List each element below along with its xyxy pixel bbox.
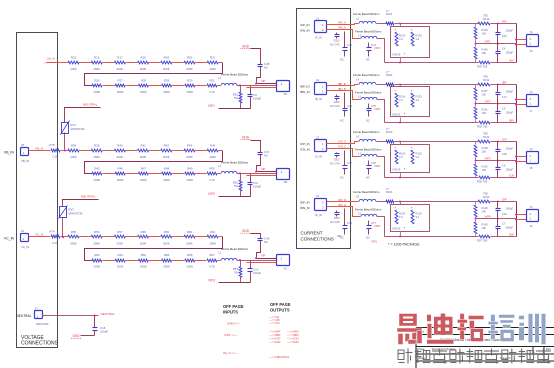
svg-text:R101: R101: [386, 12, 393, 16]
svg-text:100pF: 100pF: [506, 207, 514, 211]
svg-text:NEUTRAL: NEUTRAL: [17, 314, 32, 318]
svg-text:7W: 7W: [234, 271, 239, 275]
svg-text:NC: NC: [340, 58, 344, 62]
svg-text:R40: R40: [117, 143, 123, 147]
svg-text:OFF PAGE: OFF PAGE: [223, 304, 244, 309]
svg-text:R124: R124: [399, 212, 406, 216]
svg-text:R125: R125: [416, 212, 423, 216]
svg-text:75E: 75E: [483, 14, 488, 18]
svg-text:200K: 200K: [117, 264, 124, 268]
svg-text:100pF: 100pF: [506, 29, 514, 33]
svg-text:C72: C72: [347, 161, 352, 165]
svg-text:IBP_IN: IBP_IN: [300, 85, 310, 89]
svg-text:R28: R28: [141, 78, 147, 82]
svg-text:0 R141: 0 R141: [392, 113, 401, 117]
svg-text:R137: R137: [482, 89, 489, 93]
svg-text:200K: 200K: [117, 241, 124, 245]
svg-text:ESD: ESD: [334, 158, 340, 162]
svg-text:200K: 200K: [93, 155, 100, 159]
svg-text:200K: 200K: [117, 90, 124, 94]
svg-text:R46: R46: [118, 166, 124, 170]
svg-text:GND: GND: [72, 334, 80, 338]
svg-text:7A: 7A: [530, 31, 533, 34]
svg-text:0 R143: 0 R143: [392, 227, 401, 231]
svg-text:R59: R59: [164, 230, 170, 234]
svg-text:NC: NC: [366, 236, 370, 240]
svg-text:10K: 10K: [482, 150, 487, 154]
svg-text:J1: J1: [316, 16, 319, 20]
svg-text:R142: R142: [482, 165, 489, 169]
svg-text:3.4: 3.4: [416, 98, 420, 102]
svg-text:3.4: 3.4: [416, 155, 420, 159]
svg-text:Rev: Rev: [546, 347, 552, 351]
svg-text:200K: 200K: [70, 241, 77, 245]
svg-text:NC: NC: [366, 58, 370, 62]
svg-text:R49: R49: [187, 166, 193, 170]
svg-text:10K: 10K: [482, 210, 487, 214]
svg-text:200K: 200K: [140, 241, 147, 245]
svg-text:L1: L1: [218, 164, 222, 168]
svg-text:VB_IN: VB_IN: [4, 151, 14, 155]
svg-text:100K: 100K: [186, 264, 193, 268]
svg-text:ICN_IN: ICN_IN: [300, 148, 310, 152]
svg-text:3.4: 3.4: [399, 37, 403, 41]
svg-text:C71: C71: [347, 104, 352, 108]
svg-text:R143: R143: [482, 223, 489, 227]
svg-text:3.4: 3.4: [399, 215, 403, 219]
svg-text:7A: 7A: [530, 206, 533, 209]
svg-text:C16: C16: [502, 34, 507, 38]
svg-text:IAN: IAN: [509, 59, 514, 63]
svg-text:2.2K: 2.2K: [52, 155, 58, 159]
svg-text:R124: R124: [399, 152, 406, 156]
svg-text:Ferrite Bead 600ohm: Ferrite Bead 600ohm: [355, 30, 382, 34]
svg-text:R130: R130: [483, 17, 490, 21]
svg-text:C7: C7: [502, 222, 506, 226]
svg-text:INPUTS: INPUTS: [223, 310, 238, 315]
svg-text:VIP2: VIP2: [208, 192, 215, 196]
svg-text:VB_IN: VB_IN: [21, 159, 29, 163]
svg-text:200K: 200K: [163, 178, 170, 182]
svg-text:L4: L4: [356, 78, 359, 82]
svg-text:VIP2: VIP2: [485, 100, 492, 104]
svg-text:Ferrite Bead 600ohm: Ferrite Bead 600ohm: [221, 73, 249, 77]
svg-text:100pF: 100pF: [506, 51, 514, 55]
svg-text:200K: 200K: [70, 67, 77, 71]
svg-text:J9: J9: [530, 224, 533, 228]
svg-text:R55: R55: [71, 230, 77, 234]
svg-text:NEUTRAL: NEUTRAL: [36, 322, 49, 326]
svg-text:L6: L6: [356, 135, 359, 139]
svg-text:75E: 75E: [483, 75, 488, 79]
svg-text:VIP1: VIP1: [374, 46, 381, 50]
svg-text:10K: 10K: [482, 32, 487, 36]
svg-text:IDP_IN: IDP_IN: [300, 201, 310, 205]
svg-text:200K: 200K: [163, 67, 170, 71]
svg-text:Ferrite Bead 600ohm: Ferrite Bead 600ohm: [353, 12, 380, 16]
svg-text:R41: R41: [140, 143, 146, 147]
svg-text:R18: R18: [140, 55, 146, 59]
svg-text:ESD: ESD: [334, 39, 340, 43]
svg-text:NEUTRAL: NEUTRAL: [101, 312, 116, 316]
svg-text:2.2K: 2.2K: [52, 241, 58, 245]
svg-text:J6: J6: [530, 49, 533, 53]
svg-text:R66: R66: [187, 253, 193, 257]
svg-text:200K: 200K: [94, 178, 101, 182]
svg-text:R132: R132: [483, 135, 490, 139]
svg-text:GND: GND: [242, 45, 250, 49]
svg-text:100pF: 100pF: [100, 330, 108, 334]
svg-text:J8: J8: [530, 166, 533, 170]
svg-text:200K: 200K: [140, 90, 147, 94]
svg-text:200K: 200K: [140, 67, 147, 71]
svg-text:NC: NC: [366, 176, 370, 180]
svg-text:IAP: IAP: [502, 20, 507, 24]
svg-text:IDN_IN: IDN_IN: [300, 206, 310, 210]
svg-text:R124: R124: [399, 34, 406, 38]
svg-text:3.4: 3.4: [416, 215, 420, 219]
svg-text:100pF: 100pF: [253, 185, 261, 189]
svg-text:VIP2: VIP2: [374, 107, 381, 111]
svg-text:L2: L2: [356, 17, 359, 21]
svg-text:R104: R104: [386, 190, 393, 194]
svg-text:R60: R60: [187, 230, 193, 234]
svg-text:VARISTOR: VARISTOR: [69, 211, 83, 215]
svg-text:IB_IN: IB_IN: [315, 97, 322, 101]
svg-text:R39: R39: [94, 143, 100, 147]
svg-text:—>>VC: —>>VC: [269, 321, 281, 325]
svg-text:R75: R75: [49, 143, 55, 147]
svg-text:C19: C19: [502, 212, 507, 216]
svg-text:R140: R140: [482, 48, 489, 52]
svg-text:* = 1206 PACKAGE: * = 1206 PACKAGE: [388, 243, 420, 247]
svg-text:R19: R19: [164, 55, 170, 59]
svg-text:NC: NC: [340, 236, 344, 240]
svg-text:R56 75E: R56 75E: [477, 180, 488, 184]
svg-text:C4: C4: [502, 47, 506, 51]
svg-text:100K: 100K: [186, 178, 193, 182]
svg-text:10K: 10K: [482, 51, 487, 55]
svg-text:NC C43: NC C43: [330, 104, 340, 108]
svg-text:—>>IDP: —>>IDP: [269, 340, 281, 344]
svg-text:R131: R131: [483, 78, 490, 82]
svg-text:200K: 200K: [209, 155, 216, 159]
svg-text:VIP3: VIP3: [485, 157, 492, 161]
svg-text:R57: R57: [117, 230, 123, 234]
svg-text:CONNECTIONS: CONNECTIONS: [21, 341, 59, 347]
svg-text:200K: 200K: [163, 90, 170, 94]
svg-text:GND: GND: [242, 229, 250, 233]
svg-text:NC: NC: [340, 176, 344, 180]
svg-text:200K: 200K: [117, 67, 124, 71]
svg-text:IA_IN: IA_IN: [315, 36, 322, 40]
svg-text:100pF: 100pF: [253, 97, 261, 101]
svg-text:NC C45: NC C45: [330, 220, 340, 224]
svg-text:NEUTRAL: NEUTRAL: [81, 195, 96, 199]
svg-text:VB: VB: [284, 180, 288, 184]
svg-text:C6: C6: [502, 164, 506, 168]
svg-text:75E: 75E: [483, 192, 488, 196]
svg-text:R141: R141: [482, 108, 489, 112]
svg-text:IDN: IDN: [509, 233, 514, 237]
svg-text:NC C42: NC C42: [330, 43, 340, 47]
svg-text:J7: J7: [530, 109, 533, 113]
svg-text:R138: R138: [482, 146, 489, 150]
svg-text:R139: R139: [482, 206, 489, 210]
svg-text:200K: 200K: [93, 67, 100, 71]
svg-text:ID_IN: ID_IN: [315, 213, 322, 217]
svg-text:R136: R136: [482, 28, 489, 32]
svg-text:7W: 7W: [234, 96, 239, 100]
svg-text:IDP: IDP: [502, 198, 507, 202]
svg-text:R21: R21: [210, 55, 216, 59]
svg-text:NC: NC: [264, 240, 268, 244]
svg-text:R43: R43: [187, 143, 193, 147]
svg-text:VIP3: VIP3: [374, 164, 381, 168]
svg-text:—>>IDN: —>>IDN: [287, 340, 299, 344]
svg-text:R20: R20: [187, 55, 193, 59]
svg-text:10K: 10K: [482, 168, 487, 172]
svg-text:VC_IN: VC_IN: [21, 245, 29, 249]
svg-text:VARISTOR: VARISTOR: [71, 127, 85, 131]
svg-text:R31: R31: [209, 78, 215, 82]
svg-text:R47: R47: [141, 166, 147, 170]
svg-text:200K: 200K: [163, 264, 170, 268]
svg-text:Ferrite Bead 600ohm: Ferrite Bead 600ohm: [353, 73, 380, 77]
svg-text:R62: R62: [94, 253, 100, 257]
svg-text:4.7K: 4.7K: [209, 264, 215, 268]
svg-text:VIP1: VIP1: [371, 240, 378, 244]
svg-text:R65: R65: [164, 253, 170, 257]
svg-text:ICP_C: ICP_C: [338, 140, 346, 144]
svg-text:200K: 200K: [140, 178, 147, 182]
svg-text:R44: R44: [210, 143, 216, 147]
svg-text:IC_IN: IC_IN: [315, 155, 322, 159]
svg-text:VB_N: VB_N: [35, 147, 43, 151]
svg-text:GND: GND: [242, 136, 250, 140]
svg-text:200K: 200K: [163, 241, 170, 245]
svg-text:10K: 10K: [482, 226, 487, 230]
svg-text:75E: 75E: [483, 132, 488, 136]
svg-text:OFF PAGE: OFF PAGE: [270, 302, 291, 307]
svg-text:R50: R50: [209, 166, 215, 170]
svg-text:VC_IN: VC_IN: [4, 237, 15, 241]
svg-text:200K: 200K: [209, 67, 216, 71]
svg-text:ICN: ICN: [509, 174, 514, 178]
svg-text:200K: 200K: [140, 264, 147, 268]
svg-text:NC: NC: [264, 154, 268, 158]
svg-text:R15: R15: [71, 55, 77, 59]
svg-text:ICP_IN: ICP_IN: [300, 142, 310, 146]
svg-text:—>>NEUTRAL: —>>NEUTRAL: [269, 355, 290, 359]
svg-text:J2: J2: [316, 78, 319, 82]
svg-text:R61: R61: [210, 230, 216, 234]
svg-text:R38: R38: [71, 143, 77, 147]
svg-text:VIP3: VIP3: [208, 279, 215, 283]
svg-text:C18: C18: [502, 152, 507, 156]
svg-text:NC: NC: [264, 66, 268, 70]
svg-text:200K: 200K: [70, 155, 77, 159]
svg-text:100K: 100K: [186, 90, 193, 94]
svg-text:IAN_A: IAN_A: [338, 26, 346, 30]
svg-text:ESD: ESD: [334, 216, 340, 220]
svg-text:C73: C73: [347, 221, 352, 225]
svg-text:Ferrite Bead 600ohm: Ferrite Bead 600ohm: [355, 208, 382, 212]
svg-text:IBN: IBN: [509, 119, 514, 123]
svg-text:R74: R74: [49, 230, 55, 234]
svg-text:100pF: 100pF: [506, 111, 514, 115]
svg-text:C5: C5: [502, 107, 506, 111]
svg-text:Ferrite Bead 600ohm: Ferrite Bead 600ohm: [221, 161, 249, 165]
svg-text:R103: R103: [386, 130, 393, 134]
svg-text:7W: 7W: [234, 184, 239, 188]
svg-text:100pF: 100pF: [253, 271, 261, 275]
svg-text:C70: C70: [347, 43, 352, 47]
svg-text:0 R140: 0 R140: [392, 53, 401, 57]
svg-text:R55 75E: R55 75E: [477, 125, 488, 129]
svg-text:Ferrite Bead 600ohm: Ferrite Bead 600ohm: [355, 91, 382, 95]
svg-text:VIP1: VIP1: [208, 104, 215, 108]
svg-text:200K: 200K: [163, 155, 170, 159]
svg-text:10K: 10K: [482, 93, 487, 97]
svg-text:R58: R58: [140, 230, 146, 234]
svg-text:200K: 200K: [209, 241, 216, 245]
svg-text:3.4: 3.4: [399, 98, 403, 102]
svg-text:4.7K: 4.7K: [209, 178, 215, 182]
svg-text:R124: R124: [399, 95, 406, 99]
svg-text:IDP_D: IDP_D: [338, 198, 346, 202]
svg-text:7A: 7A: [530, 91, 533, 94]
svg-text:IAP_A: IAP_A: [338, 21, 346, 25]
svg-text:VA_N >>—: VA_N >>—: [223, 351, 238, 355]
svg-text:IBN_IN: IBN_IN: [300, 90, 310, 94]
svg-text:VIP4: VIP4: [485, 215, 492, 219]
svg-text:100pF: 100pF: [506, 226, 514, 230]
svg-text:R17: R17: [117, 55, 123, 59]
svg-text:GND>>—: GND>>—: [227, 322, 240, 326]
svg-text:Ferrite Bead 600ohm: Ferrite Bead 600ohm: [353, 190, 380, 194]
svg-text:R133: R133: [483, 195, 490, 199]
svg-text:10K: 10K: [482, 111, 487, 115]
svg-text:200K: 200K: [140, 155, 147, 159]
svg-text:NC: NC: [340, 119, 344, 123]
svg-text:J3: J3: [316, 135, 319, 139]
svg-text:R102: R102: [386, 73, 393, 77]
svg-text:3.4: 3.4: [399, 155, 403, 159]
svg-text:100pF: 100pF: [506, 90, 514, 94]
svg-text:R48: R48: [164, 166, 170, 170]
svg-text:VIP: VIP: [261, 254, 266, 258]
svg-text:R30: R30: [187, 78, 193, 82]
svg-text:R27: R27: [118, 78, 124, 82]
svg-text:VIP1: VIP1: [485, 40, 492, 44]
svg-text:200K: 200K: [93, 241, 100, 245]
svg-text:200K: 200K: [186, 67, 193, 71]
svg-text:200K: 200K: [94, 90, 101, 94]
svg-text:CURRENT: CURRENT: [301, 231, 323, 236]
svg-text:L1: L1: [218, 251, 222, 255]
svg-text:ICP: ICP: [502, 138, 507, 142]
svg-text:IDN_D: IDN_D: [338, 203, 346, 207]
svg-text:R26: R26: [94, 78, 100, 82]
svg-text:R42: R42: [164, 143, 170, 147]
svg-text:VIP: VIP: [261, 167, 266, 171]
svg-text:200K: 200K: [117, 178, 124, 182]
svg-text:100pF: 100pF: [506, 168, 514, 172]
svg-text:0 R142: 0 R142: [392, 168, 401, 172]
svg-text:R125: R125: [416, 152, 423, 156]
svg-text:R67: R67: [209, 253, 215, 257]
svg-text:ICN_C: ICN_C: [338, 145, 346, 149]
svg-text:R56: R56: [94, 230, 100, 234]
svg-text:7A: 7A: [530, 148, 533, 151]
svg-text:VC: VC: [284, 267, 288, 271]
svg-text:R125: R125: [416, 95, 423, 99]
svg-text:ESD: ESD: [334, 100, 340, 104]
svg-text:VIP4: VIP4: [374, 224, 381, 228]
svg-text:3.4: 3.4: [416, 37, 420, 41]
svg-text:100pF: 100pF: [506, 147, 514, 151]
svg-text:R54 75E: R54 75E: [477, 65, 488, 69]
svg-text:200K: 200K: [186, 241, 193, 245]
svg-text:OUTPUTS: OUTPUTS: [270, 308, 290, 313]
svg-text:200K: 200K: [94, 264, 101, 268]
svg-text:VA_N: VA_N: [47, 57, 55, 61]
svg-text:L8: L8: [356, 195, 359, 199]
svg-text:CONNECTIONS: CONNECTIONS: [301, 236, 334, 241]
svg-text:Ferrite Bead 600ohm: Ferrite Bead 600ohm: [221, 247, 249, 251]
svg-text:VC_N: VC_N: [35, 233, 43, 237]
svg-text:IBP: IBP: [502, 81, 507, 85]
svg-text:IAN_IN: IAN_IN: [300, 29, 310, 33]
svg-text:R63: R63: [118, 253, 124, 257]
svg-text:R45: R45: [94, 166, 100, 170]
svg-text:VIP: VIP: [261, 79, 266, 83]
svg-text:L1: L1: [218, 76, 222, 80]
svg-text:R29: R29: [164, 78, 170, 82]
svg-text:Ferrite Bead 600ohm: Ferrite Bead 600ohm: [355, 148, 382, 152]
svg-text:IBP_B: IBP_B: [338, 82, 346, 86]
svg-text:200K: 200K: [186, 155, 193, 159]
svg-text:NC: NC: [366, 119, 370, 123]
svg-text:C17: C17: [502, 95, 507, 99]
svg-text:VIP1 >>—: VIP1 >>—: [224, 333, 238, 337]
svg-text:Ferrite Bead 600ohm: Ferrite Bead 600ohm: [353, 130, 380, 134]
svg-text:R16: R16: [94, 55, 100, 59]
svg-text:J4: J4: [316, 194, 319, 198]
svg-text:R125: R125: [416, 34, 423, 38]
svg-text:VA: VA: [284, 92, 288, 96]
svg-text:NC C44: NC C44: [330, 162, 340, 166]
svg-text:NEUTRAL: NEUTRAL: [83, 103, 98, 107]
svg-text:IBN_B: IBN_B: [338, 87, 346, 91]
svg-text:IAP_IN: IAP_IN: [300, 23, 310, 27]
svg-text:4.7K: 4.7K: [209, 90, 215, 94]
svg-text:200K: 200K: [117, 155, 124, 159]
svg-text:R64: R64: [141, 253, 147, 257]
svg-text:R57 75E: R57 75E: [477, 239, 488, 243]
